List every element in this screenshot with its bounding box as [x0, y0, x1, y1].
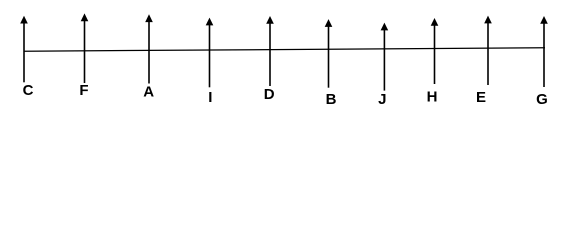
arrowhead A [145, 14, 153, 22]
arrowhead B [325, 19, 333, 27]
svg-text:B: B [326, 91, 337, 108]
arrowhead F [81, 13, 89, 21]
arrow J shaft [383, 28, 385, 90]
arrowhead J [381, 23, 389, 31]
label H [427, 89, 438, 106]
label D [264, 86, 275, 103]
arrow B shaft [328, 25, 330, 88]
arrowhead D [266, 16, 274, 24]
arrow G shaft [543, 22, 545, 87]
label E [476, 89, 486, 106]
svg-text:J: J [378, 91, 386, 108]
svg-text:G: G [536, 91, 548, 108]
svg-text:I: I [208, 89, 212, 106]
svg-text:C: C [23, 82, 34, 99]
label B [326, 91, 337, 108]
label F [79, 82, 88, 99]
arrow I shaft [209, 23, 211, 87]
arrow F shaft [84, 19, 86, 83]
arrowhead I [206, 18, 214, 26]
svg-text:F: F [79, 82, 88, 99]
label A [143, 83, 154, 100]
label G [536, 91, 548, 108]
label J [378, 91, 386, 108]
label I [208, 89, 212, 106]
svg-text:H: H [427, 89, 438, 106]
arrowhead E [484, 16, 492, 24]
arrowhead H [431, 18, 439, 26]
baseline wire [24, 48, 545, 51]
svg-text:A: A [143, 83, 154, 100]
label C [23, 82, 34, 99]
arrow D shaft [269, 22, 271, 86]
arrowhead C [20, 16, 28, 24]
svg-text:D: D [264, 86, 275, 103]
arrow H shaft [434, 24, 436, 84]
svg-text:E: E [476, 89, 486, 106]
arrow C shaft [23, 22, 25, 83]
arrowhead G [540, 16, 548, 24]
arrow A shaft [148, 20, 150, 83]
arrow E shaft [487, 21, 489, 85]
